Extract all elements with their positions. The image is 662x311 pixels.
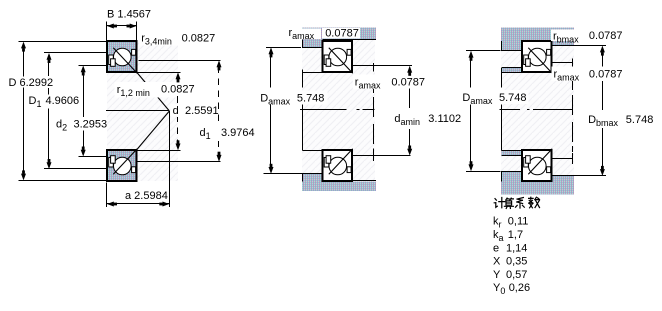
dimension a line: [107, 203, 169, 204]
dimension D label: [7, 77, 56, 88]
dimension D line: [23, 47, 24, 77]
axis center line: [499, 109, 520, 110]
shaft end line: [552, 62, 573, 63]
housing lower block: [501, 182, 574, 195]
dimension damin label: [393, 112, 461, 126]
svg-text:Y: Y: [493, 269, 501, 281]
dimension damin line: [409, 89, 410, 109]
label r3,4 min: [139, 31, 217, 46]
spacer sleeve lower: [501, 150, 521, 155]
label r_amax: [552, 67, 625, 82]
dimension d2 extension lines: [79, 65, 108, 66]
shaft abutment outline: [302, 72, 322, 73]
svg-text:D 6.2992: D 6.2992: [9, 77, 54, 89]
spacer sleeve upper: [501, 68, 521, 72]
svg-text:0,26: 0,26: [509, 282, 530, 294]
dimension B extension lines: [106, 22, 107, 41]
svg-text:5.748: 5.748: [297, 93, 325, 105]
dimension Dbmax label: [587, 113, 655, 127]
bearing upper cross-section (blue rings + ball): [107, 41, 137, 72]
dimension d1 label: [198, 127, 254, 140]
dimension d label: [171, 104, 220, 117]
bearing lower cross-section: [522, 150, 552, 181]
svg-text:0.0787: 0.0787: [589, 30, 623, 42]
dimension B line: [107, 25, 137, 26]
svg-text:0.0787: 0.0787: [325, 27, 359, 39]
contact angle line upper: [137, 72, 170, 111]
contact angle line lower: [137, 111, 170, 150]
svg-text:0.0787: 0.0787: [589, 69, 623, 81]
label r_amax top: [287, 29, 321, 40]
dimension D1 line: [48, 59, 49, 77]
axis center line: [300, 109, 346, 110]
middle figure hatch background: [302, 28, 375, 192]
svg-text:3.2953: 3.2953: [74, 119, 108, 131]
dimension D1 label: [27, 95, 82, 108]
dimension Damax label: [461, 90, 529, 104]
table header (CJK, drawn as strokes): [494, 197, 539, 208]
dimension a extension line: [106, 183, 107, 208]
bearing axis center line: [106, 110, 169, 111]
dimension d1 extension lines: [138, 60, 220, 61]
svg-text:5.748: 5.748: [626, 114, 654, 126]
svg-text:3.9764: 3.9764: [221, 127, 255, 139]
label 0.0787 top: [322, 28, 360, 39]
dimension Damax label: [259, 91, 328, 105]
svg-text:e: e: [493, 242, 499, 254]
svg-text:0,11: 0,11: [508, 216, 529, 228]
sleeve extension line: [501, 68, 502, 88]
shaft end line: [373, 63, 374, 72]
bearing upper cross-section: [522, 41, 552, 72]
dimension d2 line: [83, 71, 84, 117]
svg-text:1,7: 1,7: [508, 229, 523, 241]
dimension Damax extension lines: [266, 47, 301, 48]
dimension Dbmax extension lines: [574, 45, 606, 46]
housing lower block: [302, 182, 376, 192]
dimension D extension lines: [19, 41, 108, 42]
bearing lower cross-section (blue rings + ball): [107, 150, 137, 181]
label r_amax middle: [353, 75, 426, 90]
svg-text:X: X: [493, 256, 501, 268]
dimension Damax line: [270, 54, 271, 88]
svg-text:0,57: 0,57: [506, 269, 527, 281]
dimension d extension lines: [137, 72, 180, 73]
svg-text:4.9606: 4.9606: [46, 95, 80, 107]
dimension d line (dashed): [177, 79, 178, 82]
dimension d2 label: [55, 118, 107, 131]
housing upper block: [501, 28, 574, 42]
housing upper block: [302, 28, 376, 40]
svg-text:a 2.5984: a 2.5984: [125, 190, 168, 202]
bearing lower cross-section: [323, 150, 353, 181]
svg-text:3.1102: 3.1102: [428, 113, 461, 125]
dimension damin extension lines: [351, 65, 412, 66]
svg-text:0.0827: 0.0827: [161, 84, 195, 96]
left figure hatch background: [107, 41, 178, 181]
label r1,2 min: [115, 82, 199, 98]
svg-text:d: d: [173, 105, 179, 117]
svg-text:B 1.4567: B 1.4567: [107, 9, 151, 21]
svg-text:2.5591: 2.5591: [185, 105, 219, 117]
dimension Damax extension lines: [466, 50, 501, 51]
svg-text:5.748: 5.748: [499, 92, 527, 104]
svg-text:0,35: 0,35: [506, 256, 527, 268]
apex extension line: [169, 111, 170, 207]
dimension Dbmax line: [602, 52, 603, 67]
svg-text:0.0787: 0.0787: [391, 76, 425, 88]
right figure hatch background: [501, 28, 574, 195]
dimension D1 extension lines: [44, 52, 107, 53]
bearing upper cross-section: [323, 41, 353, 72]
label r_bmax: [551, 30, 584, 42]
dimension d1 line (dashed): [218, 67, 219, 73]
dimension Damax line: [470, 57, 471, 87]
svg-text:0.0827: 0.0827: [182, 33, 216, 45]
svg-text:1,14: 1,14: [506, 242, 527, 254]
